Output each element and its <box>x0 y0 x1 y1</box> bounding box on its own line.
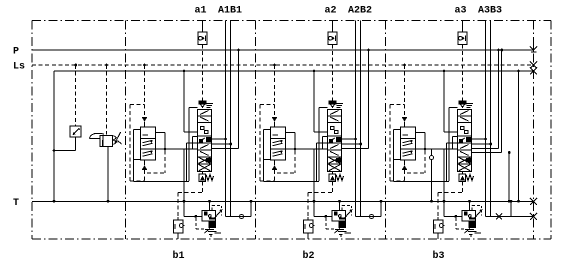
svg-text:A3B3: A3B3 <box>478 6 502 17</box>
svg-text:A1B1: A1B1 <box>218 6 242 17</box>
svg-text:b1: b1 <box>173 250 185 262</box>
svg-text:b3: b3 <box>433 250 445 262</box>
svg-text:T: T <box>13 198 19 209</box>
svg-text:a3: a3 <box>455 6 467 17</box>
svg-text:a2: a2 <box>325 6 337 17</box>
svg-text:Ls: Ls <box>13 62 25 73</box>
svg-text:P: P <box>13 47 19 58</box>
svg-text:A2B2: A2B2 <box>348 6 372 17</box>
svg-text:b2: b2 <box>303 250 315 262</box>
svg-text:a1: a1 <box>195 6 207 17</box>
